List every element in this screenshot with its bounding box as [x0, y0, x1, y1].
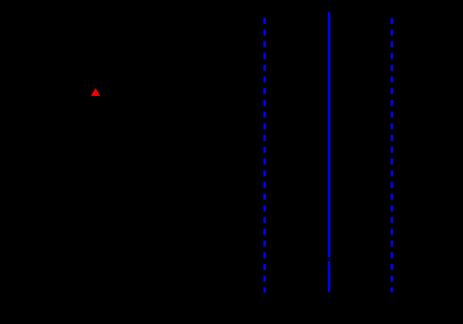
red triangle marker	[91, 88, 100, 96]
solid vertical line (center)	[328, 12, 330, 292]
dashed vertical line (left)	[263, 18, 265, 293]
dashed vertical line (right)	[391, 18, 393, 293]
dim blue residue in gap	[329, 257, 330, 260]
gap in solid line (text occlusion)	[327, 257, 332, 261]
